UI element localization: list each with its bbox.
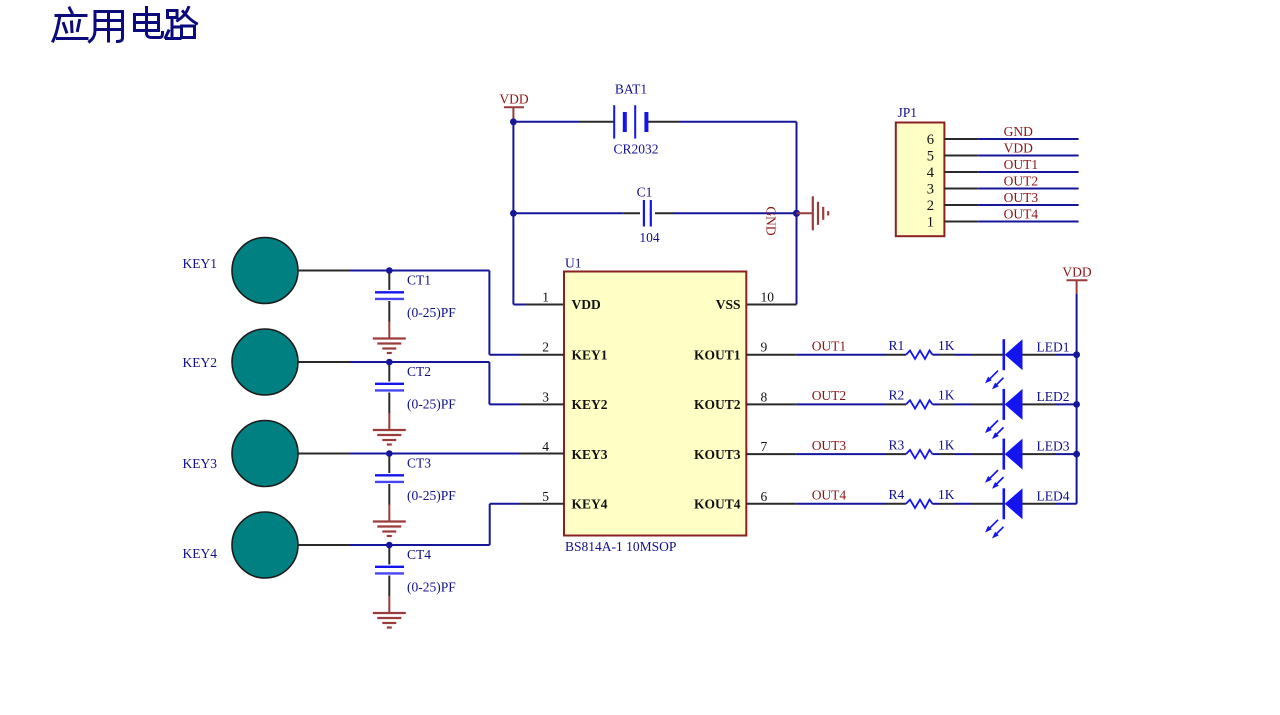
svg-text:3: 3 bbox=[927, 181, 934, 197]
svg-text:7: 7 bbox=[761, 439, 768, 454]
svg-text:LED4: LED4 bbox=[1037, 488, 1070, 503]
svg-text:KEY3: KEY3 bbox=[183, 456, 218, 471]
wire net OUT1 bbox=[978, 171, 1078, 173]
wire R1 zigzag tails bbox=[933, 354, 940, 356]
svg-text:KEY3: KEY3 bbox=[572, 447, 608, 462]
svg-text:3: 3 bbox=[542, 389, 549, 404]
svg-text:OUT4: OUT4 bbox=[1004, 207, 1039, 222]
svg-text:CT4: CT4 bbox=[407, 547, 431, 562]
key pad circle KEY3 bbox=[232, 421, 298, 487]
resistor R1 1K bbox=[886, 338, 955, 359]
svg-text:VDD: VDD bbox=[1062, 265, 1091, 280]
wire KEY1 to pin 2 bbox=[350, 270, 489, 272]
svg-text:6: 6 bbox=[927, 132, 934, 148]
wire C1 left vertical bbox=[512, 122, 514, 214]
wire LED4 to VDD rail bbox=[1055, 503, 1077, 505]
wire KEY4 to pin 5 bbox=[350, 544, 490, 546]
wire C1 left bbox=[513, 212, 622, 214]
svg-text:9: 9 bbox=[761, 340, 768, 355]
svg-text:U1: U1 bbox=[565, 256, 582, 271]
svg-text:OUT2: OUT2 bbox=[1004, 174, 1039, 189]
wire LED3 to VDD rail bbox=[1055, 453, 1077, 455]
svg-text:OUT1: OUT1 bbox=[1004, 157, 1039, 172]
svg-text:OUT3: OUT3 bbox=[812, 438, 847, 453]
svg-text:C1: C1 bbox=[637, 185, 653, 200]
wire LED2 to VDD rail bbox=[1055, 403, 1077, 405]
pin 9 stub (KOUT1) bbox=[746, 354, 796, 356]
battery BAT1 CR2032 bbox=[613, 82, 658, 157]
pin 3 stub bbox=[520, 403, 564, 405]
svg-text:VDD: VDD bbox=[572, 297, 601, 312]
svg-text:KOUT4: KOUT4 bbox=[694, 497, 741, 512]
node LED3 rail junction bbox=[1073, 451, 1080, 458]
svg-text:BS814A-1 10MSOP: BS814A-1 10MSOP bbox=[565, 539, 676, 554]
node LED2 rail junction bbox=[1073, 401, 1080, 408]
pin JP1-2 stub bbox=[944, 204, 978, 206]
svg-text:VDD: VDD bbox=[1004, 141, 1033, 156]
node C1 left junction bbox=[510, 210, 517, 217]
svg-text:OUT1: OUT1 bbox=[812, 338, 847, 353]
svg-text:(0-25)PF: (0-25)PF bbox=[407, 397, 456, 412]
svg-text:KEY1: KEY1 bbox=[572, 347, 608, 362]
svg-text:KOUT1: KOUT1 bbox=[694, 347, 741, 362]
connector JP1 bbox=[896, 105, 945, 236]
pin 5 stub bbox=[520, 503, 564, 505]
capacitor CT3 bbox=[375, 456, 456, 505]
svg-text:CR2032: CR2032 bbox=[613, 142, 658, 157]
ground under CT2 bbox=[373, 413, 406, 445]
svg-text:OUT4: OUT4 bbox=[812, 488, 847, 503]
svg-text:OUT3: OUT3 bbox=[1004, 190, 1039, 205]
svg-text:LED3: LED3 bbox=[1037, 439, 1070, 454]
svg-text:1: 1 bbox=[927, 214, 934, 230]
key pad circle KEY2 bbox=[232, 329, 298, 395]
svg-text:R3: R3 bbox=[889, 437, 905, 452]
svg-text:KEY4: KEY4 bbox=[183, 546, 218, 561]
svg-text:5: 5 bbox=[542, 489, 549, 504]
led LED4 bbox=[971, 488, 1070, 538]
svg-text:1K: 1K bbox=[938, 338, 955, 353]
svg-text:1: 1 bbox=[542, 290, 549, 305]
svg-text:6: 6 bbox=[761, 489, 768, 504]
svg-text:(0-25)PF: (0-25)PF bbox=[407, 305, 456, 320]
node KEY3-CT3 junction bbox=[386, 450, 393, 457]
capacitor CT1 bbox=[375, 273, 456, 322]
ground GND (rotated right) bbox=[764, 196, 829, 236]
wire pin1 horizontal bbox=[513, 304, 525, 306]
svg-text:LED2: LED2 bbox=[1037, 389, 1070, 404]
svg-text:GND: GND bbox=[764, 206, 779, 235]
wire LED1 to VDD rail bbox=[1055, 354, 1077, 356]
wire battery left bbox=[513, 121, 580, 123]
svg-text:1K: 1K bbox=[938, 437, 955, 452]
pin JP1-3 stub bbox=[944, 188, 978, 190]
svg-text:BAT1: BAT1 bbox=[615, 82, 647, 97]
key pad circle KEY1 bbox=[232, 238, 298, 304]
svg-text:(0-25)PF: (0-25)PF bbox=[407, 488, 456, 503]
node KEY1-CT1 junction bbox=[386, 267, 393, 274]
wire C1 right stub bbox=[655, 212, 673, 214]
svg-text:CT1: CT1 bbox=[407, 273, 431, 288]
wire VDD rail vertical bbox=[1076, 294, 1078, 504]
wire OUT1 bbox=[796, 354, 886, 356]
svg-text:GND: GND bbox=[1004, 124, 1033, 139]
node LED1 rail junction bbox=[1073, 351, 1080, 358]
wire OUT3 bbox=[796, 453, 886, 455]
wire KEY1 from pad bbox=[298, 270, 350, 272]
svg-text:VDD: VDD bbox=[499, 92, 528, 107]
led LED3 bbox=[971, 439, 1070, 489]
wire C1 right bbox=[673, 212, 797, 214]
wire net OUT3 bbox=[978, 204, 1078, 206]
led LED1 bbox=[971, 339, 1070, 389]
pin 10 stub bbox=[746, 304, 796, 306]
pin JP1-6 stub bbox=[944, 138, 978, 140]
svg-text:8: 8 bbox=[761, 389, 768, 404]
pin JP1-5 stub bbox=[944, 155, 978, 157]
wire net OUT2 bbox=[978, 188, 1078, 190]
svg-text:KEY2: KEY2 bbox=[572, 397, 608, 412]
pin 6 stub (KOUT4) bbox=[746, 503, 796, 505]
pin 1 stub bbox=[525, 304, 564, 306]
wire battery right bbox=[680, 121, 797, 123]
svg-text:2: 2 bbox=[927, 198, 934, 214]
wire KEY3 to pin 4 bbox=[350, 453, 520, 455]
power VDD (top left) bbox=[499, 92, 528, 122]
wire KEY2 to pin 3 bbox=[350, 361, 489, 363]
wire KEY4 from pad bbox=[298, 544, 350, 546]
wire net OUT4 bbox=[978, 221, 1078, 223]
wire KEY2 from pad bbox=[298, 361, 350, 363]
capacitor CT2 bbox=[375, 364, 456, 413]
pin 8 stub (KOUT2) bbox=[746, 403, 796, 405]
wire battery right stub bbox=[648, 121, 680, 123]
node KEY2-CT2 junction bbox=[386, 359, 393, 366]
svg-text:LED1: LED1 bbox=[1037, 339, 1070, 354]
wire R3 zigzag tails bbox=[933, 453, 940, 455]
svg-text:VSS: VSS bbox=[716, 297, 741, 312]
svg-text:JP1: JP1 bbox=[898, 105, 918, 120]
op-chip U1 BS814A-1 bbox=[564, 256, 746, 555]
capacitor C1 104 bbox=[637, 185, 660, 246]
resistor R3 1K bbox=[886, 437, 955, 458]
svg-text:KEY1: KEY1 bbox=[183, 256, 218, 271]
svg-text:CT2: CT2 bbox=[407, 364, 431, 379]
wire net VDD bbox=[978, 155, 1078, 157]
svg-text:KOUT2: KOUT2 bbox=[694, 397, 741, 412]
key pad circle KEY4 bbox=[232, 512, 298, 578]
pin 7 stub (KOUT3) bbox=[746, 453, 796, 455]
svg-text:R2: R2 bbox=[889, 388, 905, 403]
wire R4 zigzag tails bbox=[933, 503, 940, 505]
wire battery left stub bbox=[580, 121, 614, 123]
resistor R4 1K bbox=[886, 487, 955, 508]
pin JP1-1 stub bbox=[944, 221, 978, 223]
wire KEY3 from pad bbox=[298, 453, 350, 455]
svg-text:4: 4 bbox=[927, 165, 935, 181]
pin 2 stub bbox=[520, 354, 564, 356]
svg-text:2: 2 bbox=[542, 340, 549, 355]
svg-text:(0-25)PF: (0-25)PF bbox=[407, 580, 456, 595]
wire OUT4 bbox=[796, 503, 886, 505]
wire net GND bbox=[978, 138, 1078, 140]
ground under CT3 bbox=[373, 505, 406, 537]
ground under CT4 bbox=[373, 596, 406, 628]
node KEY4-CT4 junction bbox=[386, 542, 393, 549]
svg-text:1K: 1K bbox=[938, 487, 955, 502]
svg-text:5: 5 bbox=[927, 148, 934, 164]
svg-text:R1: R1 bbox=[889, 338, 905, 353]
title text 应用电路 (drawn strokes) bbox=[53, 8, 197, 42]
svg-text:R4: R4 bbox=[889, 487, 905, 502]
ground under CT1 bbox=[373, 322, 406, 354]
wire C1 left stub bbox=[623, 212, 640, 214]
wire OUT2 bbox=[796, 403, 886, 405]
svg-text:OUT2: OUT2 bbox=[812, 388, 847, 403]
svg-text:10: 10 bbox=[761, 290, 775, 305]
wire R2 zigzag tails bbox=[933, 403, 940, 405]
wire VDD vertical to pin 1 bbox=[512, 213, 514, 304]
svg-text:1K: 1K bbox=[938, 388, 955, 403]
node VDD-battery junction bbox=[510, 118, 517, 125]
pin JP1-4 stub bbox=[944, 171, 978, 173]
pin 4 stub bbox=[520, 453, 564, 455]
svg-text:KOUT3: KOUT3 bbox=[694, 447, 741, 462]
wire VSS vertical (battery to pin 10) bbox=[796, 122, 798, 305]
power VDD (right rail) bbox=[1062, 265, 1091, 294]
led LED2 bbox=[971, 389, 1070, 439]
svg-text:KEY2: KEY2 bbox=[183, 355, 218, 370]
svg-text:104: 104 bbox=[639, 230, 660, 245]
svg-text:KEY4: KEY4 bbox=[572, 497, 608, 512]
resistor R2 1K bbox=[886, 388, 955, 409]
svg-text:4: 4 bbox=[542, 439, 549, 454]
svg-text:CT3: CT3 bbox=[407, 456, 431, 471]
node GND junction bbox=[793, 210, 800, 217]
capacitor CT4 bbox=[375, 547, 456, 596]
